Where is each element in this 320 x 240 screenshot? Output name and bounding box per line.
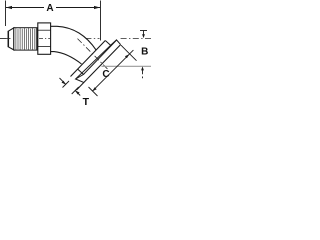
- dim B top arrowhead: [142, 34, 145, 38]
- dim T extension line front: [72, 87, 79, 94]
- dim B top tail: [140, 30, 147, 32]
- dim T arrow 1 (to back face): [60, 78, 66, 85]
- centerline through nose tip: [0, 37, 11, 39]
- dim B top stem: [143, 31, 145, 36]
- flange front face: [77, 45, 121, 90]
- dim C top arrowhead: [125, 54, 129, 58]
- flange bottom end zigzag: [76, 69, 84, 82]
- elbow outer arc: [51, 26, 97, 50]
- flange mid line 1: [76, 45, 111, 79]
- dim A left arrowhead: [6, 6, 12, 9]
- hex nut: [38, 23, 51, 54]
- dim A extension line left: [5, 1, 7, 27]
- elbow body fill: [51, 26, 97, 64]
- dim A line left segment: [6, 7, 44, 9]
- svg-text:A: A: [46, 3, 53, 14]
- dim C line: [92, 50, 133, 91]
- dim B bottom dot: [142, 77, 144, 79]
- dim B bottom arrowhead: [141, 66, 144, 70]
- dim C bottom arrowhead: [92, 87, 96, 91]
- centerline 45 degree (flange axis, dash-dot): [78, 39, 109, 70]
- dim T extension line back: [63, 81, 70, 88]
- dim B bottom stem: [142, 70, 144, 74]
- flange head fill: [71, 40, 121, 90]
- male nose cone: [8, 28, 14, 50]
- background: [0, 0, 152, 106]
- dim T arrow 2 (to front face): [75, 91, 80, 96]
- dim A line right segment: [56, 7, 100, 9]
- elbow inner arc: [51, 52, 82, 64]
- svg-text:T: T: [83, 96, 90, 106]
- dim C extension line bottom: [89, 87, 98, 96]
- dim C extension line top: [121, 45, 137, 61]
- thread section: [14, 28, 37, 50]
- flange top end zigzag: [105, 40, 120, 45]
- flange back face: [71, 41, 106, 77]
- B face extension line (gray): [102, 65, 152, 67]
- nose tip face (thicker): [7, 31, 9, 47]
- dim A right arrowhead: [94, 6, 100, 9]
- flange mid line 2: [84, 40, 117, 74]
- centerline dash inside hex: [39, 37, 51, 39]
- centerline horizontal (main axis, dash-dot): [0, 37, 152, 39]
- svg-text:C: C: [102, 69, 109, 80]
- hex flat lines: [38, 30, 51, 46]
- svg-text:B: B: [141, 47, 148, 58]
- thread lines: [16, 28, 36, 50]
- dim A extension line right: [100, 1, 102, 41]
